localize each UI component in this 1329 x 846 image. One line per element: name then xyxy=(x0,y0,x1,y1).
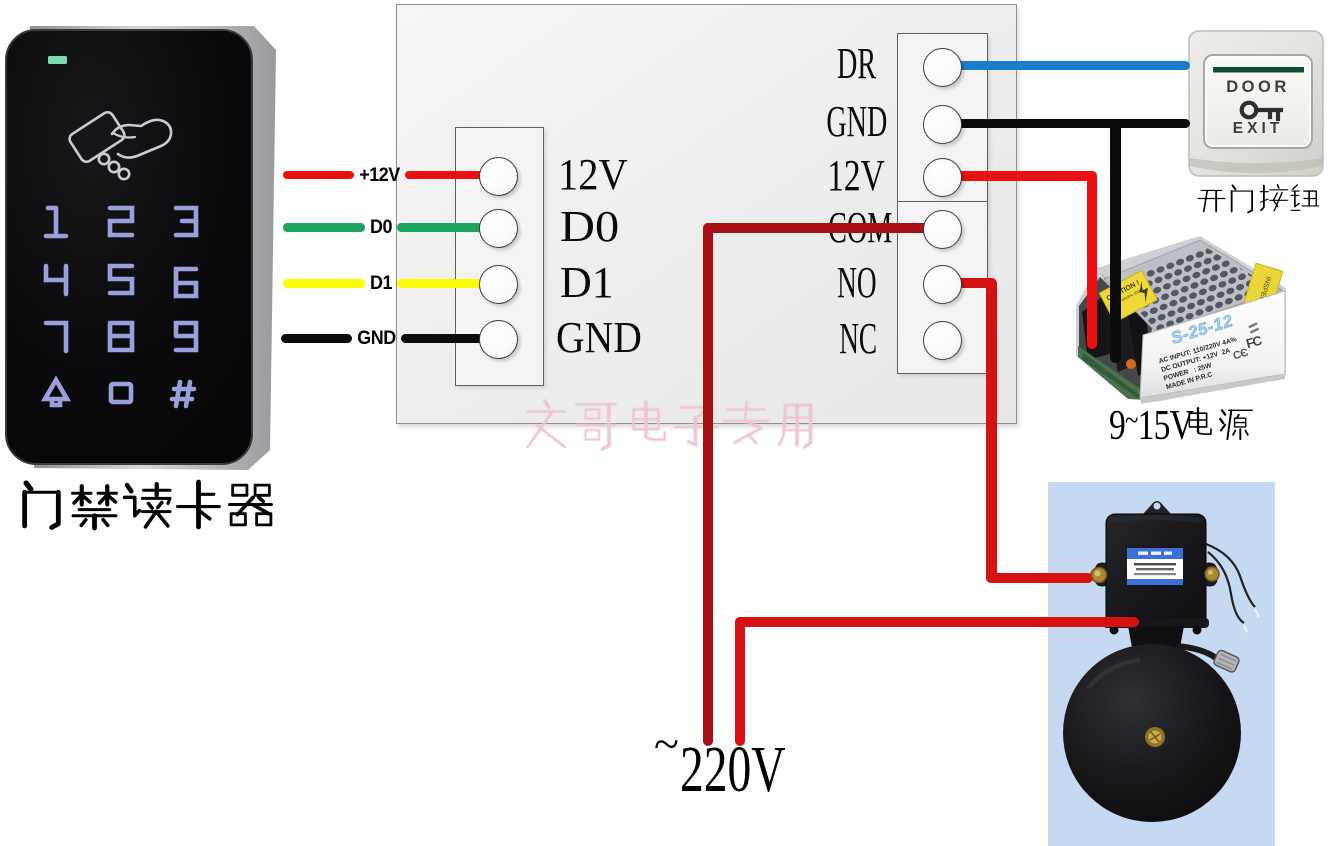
wire NO vertical (red) xyxy=(986,278,997,583)
label ~220V tilde (mains) xyxy=(654,721,679,767)
label DR xyxy=(837,32,876,95)
terminal strip left (reader connector) xyxy=(455,127,544,386)
terminal strip right upper (DR GND 12V) xyxy=(897,33,988,202)
label 开门按钮 (exit button caption) xyxy=(1190,178,1329,222)
ears xyxy=(1094,563,1106,587)
pin D1 left xyxy=(479,265,518,304)
wire bell-to-220V horizontal (red) xyxy=(735,617,1139,628)
label NO xyxy=(838,251,877,314)
terminal strip right lower (COM NO NC relay) xyxy=(897,201,988,374)
wire bell-to-220V vertical (red) xyxy=(735,617,746,746)
label GND (left strip) xyxy=(556,306,642,369)
pin DR xyxy=(923,48,962,87)
wire GND-to-button (black horizontal) xyxy=(941,119,1190,129)
wire D0 segment a xyxy=(283,223,365,232)
wire D1 segment b xyxy=(397,279,497,288)
pin COM xyxy=(923,210,962,249)
label NC xyxy=(839,307,877,370)
top perforated face xyxy=(1104,240,1282,332)
label 门禁读卡器 (card reader caption) xyxy=(0,0,300,560)
bottom flange + screw holes xyxy=(1103,618,1209,628)
label 12V (right strip) xyxy=(827,144,885,207)
wire GND-to-PSU (black vertical) xyxy=(1110,119,1121,363)
left dark terminal side xyxy=(1079,277,1152,394)
wire D0 segment b xyxy=(397,223,497,232)
wire label +12V xyxy=(354,165,405,185)
label D0 (left strip) xyxy=(560,195,619,258)
wire 12V-to-PSU horizontal (red) xyxy=(941,171,1097,181)
power supply (photo) xyxy=(1072,232,1292,412)
caution sticker xyxy=(1099,271,1157,323)
pin 12V right xyxy=(923,158,962,197)
wire GND-left segment a xyxy=(281,334,352,343)
wire label GND xyxy=(352,328,401,348)
wire label D1 xyxy=(364,273,397,293)
hanging black wires xyxy=(1206,544,1255,623)
S-25-12 blue text xyxy=(1169,311,1236,348)
light blue backdrop xyxy=(1048,482,1275,846)
label GND (right strip) xyxy=(826,90,887,153)
svg-text:DOOR: DOOR xyxy=(1226,78,1290,96)
chassis base xyxy=(1076,236,1286,402)
right yellow sticker xyxy=(1239,263,1283,327)
pin NO xyxy=(923,265,962,304)
label D1 (left strip) xyxy=(560,251,614,314)
clapper arm + head xyxy=(1176,646,1216,658)
label 9~15V (PSU caption latin part) xyxy=(1109,399,1193,447)
wire +12V segment b xyxy=(405,171,497,180)
card reader (photo) xyxy=(0,22,290,472)
bell left ear screw (over wire) xyxy=(1086,564,1110,588)
label COM xyxy=(828,196,892,259)
pin GND left xyxy=(479,320,518,359)
label 12V (left strip) xyxy=(558,143,628,206)
white front face xyxy=(1140,291,1285,398)
neck xyxy=(1128,626,1184,658)
svg-text:EXIT: EXIT xyxy=(1233,120,1283,137)
wire COM horizontal (dark red) xyxy=(703,223,941,233)
top mounting tab xyxy=(1143,501,1171,514)
electric bell (photo) xyxy=(1048,482,1275,846)
wire GND-left segment b xyxy=(401,334,497,343)
pin GND right xyxy=(923,105,962,144)
center screw xyxy=(1145,727,1165,747)
label ~220V digits (mains) xyxy=(680,737,786,803)
pin NC xyxy=(923,321,962,360)
bell black box xyxy=(1106,514,1206,626)
dome xyxy=(1063,644,1241,822)
label xyxy=(1127,548,1183,585)
terminal screws band xyxy=(1099,272,1160,330)
pin D0 left xyxy=(479,209,518,248)
controller box xyxy=(396,4,1017,424)
pin 12V left xyxy=(479,157,518,196)
wire 12V-to-PSU vertical (red) xyxy=(1087,171,1097,349)
wire NO horizontal stub (red) xyxy=(956,278,996,289)
exit button (photo) xyxy=(1186,28,1326,180)
black terminal blocks xyxy=(1082,294,1116,360)
green pcb xyxy=(1078,346,1146,400)
wire NO-to-bell (red) xyxy=(986,573,1093,584)
wire D1 segment a xyxy=(283,279,365,288)
wire +12V segment a xyxy=(283,171,354,180)
wire DR-to-exit-button (blue) xyxy=(941,61,1190,71)
label 电源 (PSU caption cjk part) xyxy=(1178,405,1258,445)
wire label D0 xyxy=(364,217,397,237)
orange screw xyxy=(1126,359,1136,369)
wire COM vertical down (dark red) xyxy=(703,223,713,746)
